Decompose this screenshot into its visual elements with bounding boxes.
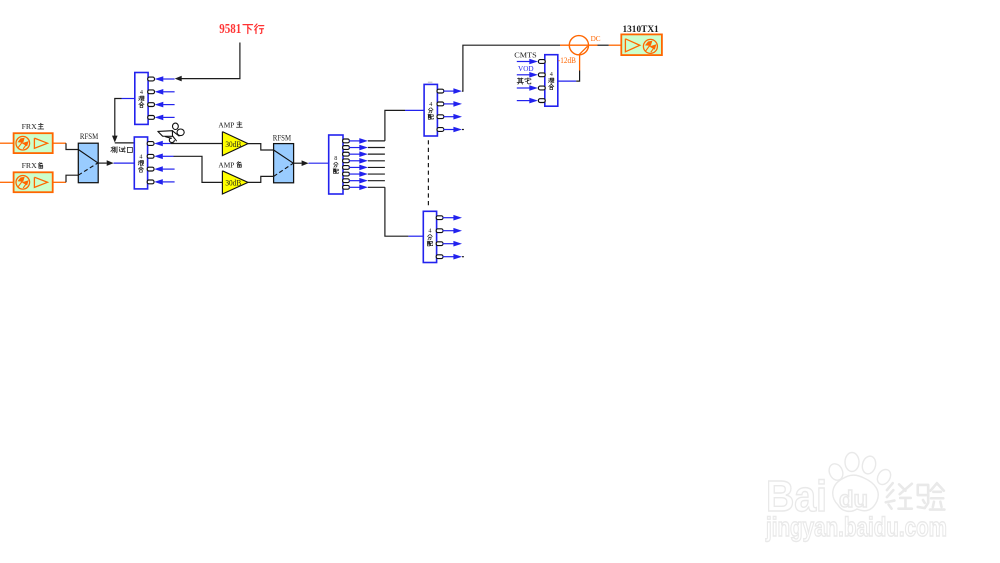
svg-text:du: du <box>839 486 868 512</box>
svg-text:-12dB: -12dB <box>558 56 576 65</box>
svg-text:DC: DC <box>591 34 601 43</box>
svg-text:RFSM: RFSM <box>273 134 291 143</box>
svg-text:4: 4 <box>550 71 553 78</box>
svg-text:30dB: 30dB <box>225 179 241 188</box>
svg-text:AMP: AMP <box>218 160 234 169</box>
svg-text:30dB: 30dB <box>225 140 241 149</box>
svg-text:4: 4 <box>139 154 142 161</box>
svg-text:FRX: FRX <box>22 122 38 131</box>
svg-text:RFSM: RFSM <box>80 132 98 141</box>
svg-text:FRX: FRX <box>22 161 38 170</box>
svg-text:4: 4 <box>140 89 143 96</box>
svg-text:4: 4 <box>428 228 431 235</box>
svg-text:CMTS: CMTS <box>514 50 536 59</box>
svg-text:jingyan.baidu.com: jingyan.baidu.com <box>765 512 947 542</box>
svg-text:VOD: VOD <box>518 64 534 73</box>
svg-text:9581: 9581 <box>219 21 241 36</box>
svg-text:AMP: AMP <box>218 120 234 129</box>
svg-text:8: 8 <box>334 155 337 162</box>
svg-text:4: 4 <box>429 101 432 108</box>
svg-text:1310TX1: 1310TX1 <box>623 24 660 34</box>
